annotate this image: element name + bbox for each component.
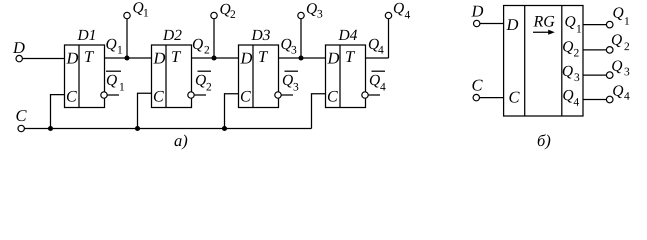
pin label T of D1 bbox=[85, 51, 94, 62]
pin label Q3 of RG bbox=[563, 66, 580, 81]
terminal label Q1 bbox=[133, 2, 148, 16]
pin label Q2 of RG bbox=[563, 41, 579, 56]
output terminal Q3 of RG bbox=[606, 72, 613, 79]
label D (RG data input) bbox=[471, 6, 483, 17]
junction Q1 to terminal riser bbox=[124, 55, 129, 60]
wire Q4 output bbox=[366, 57, 389, 59]
output terminal Q2 bbox=[211, 12, 217, 18]
pin label D of D1 bbox=[66, 53, 78, 64]
wire /Q3 stub bbox=[281, 94, 293, 96]
wire C clock bus bbox=[24, 128, 311, 130]
terminal label Q3 bbox=[307, 3, 322, 17]
wire Q3 output bbox=[279, 57, 326, 59]
pin label Q4 of RG bbox=[563, 90, 579, 106]
label C (clock input) bbox=[16, 110, 26, 121]
wire /Q2 stub bbox=[194, 94, 206, 96]
label C (RG clock input) bbox=[472, 80, 482, 91]
D flip-flop D2 body bbox=[152, 45, 192, 108]
terminal label Q1 of RG bbox=[613, 7, 629, 24]
pin label T of D4 bbox=[346, 51, 355, 62]
output label /Q3 (Q3 inverted) bbox=[283, 71, 298, 90]
pin label D of D3 bbox=[240, 53, 252, 64]
wire D input of RG bbox=[480, 23, 504, 25]
inversion bubble on D3 inverted output bbox=[275, 92, 281, 98]
inversion bubble on D2 inverted output bbox=[188, 92, 194, 98]
D flip-flop D4 body bbox=[326, 45, 366, 108]
wire /Q4 stub bbox=[368, 94, 380, 96]
wire Q4 terminal riser bbox=[388, 19, 390, 58]
wire D input to D1 bbox=[22, 58, 64, 60]
output terminal Q1 bbox=[124, 12, 130, 18]
pin label T of D2 bbox=[172, 51, 181, 62]
wire Q4 output of RG bbox=[583, 99, 606, 101]
wire Q3 terminal riser bbox=[300, 19, 302, 58]
junction on C bus at D1 riser bbox=[48, 126, 53, 131]
output label Q1 bbox=[106, 39, 122, 54]
D flip-flop D3 body bbox=[239, 45, 279, 108]
wire clock riser to D1 C pin bbox=[51, 95, 65, 129]
terminal label Q2 bbox=[220, 4, 235, 18]
wire Q2 output bbox=[192, 57, 239, 59]
output terminal Q3 bbox=[298, 12, 304, 18]
label D (serial input) bbox=[13, 42, 25, 53]
wire Q1 output of RG bbox=[583, 24, 606, 26]
inversion bubble on D1 inverted output bbox=[101, 92, 107, 98]
pin label D of D4 bbox=[327, 53, 339, 64]
output label /Q1 (Q1 inverted) bbox=[106, 71, 124, 90]
wire /Q1 stub bbox=[107, 94, 119, 96]
pin label C of RG bbox=[509, 92, 519, 103]
label D1 bbox=[77, 30, 94, 40]
junction on C bus at D3 riser bbox=[222, 126, 227, 131]
pin label C of D2 bbox=[154, 91, 164, 102]
label D4 bbox=[338, 30, 357, 40]
output label /Q2 (Q2 inverted) bbox=[196, 71, 211, 90]
register RG body bbox=[504, 6, 583, 117]
caption b) for right diagram bbox=[538, 134, 551, 149]
label RG bbox=[533, 16, 554, 27]
terminal label Q4 of RG bbox=[613, 85, 629, 99]
junction on C bus at D2 riser bbox=[135, 126, 140, 131]
label D2 bbox=[163, 30, 182, 40]
pin label C of D4 bbox=[328, 91, 338, 102]
input terminal C bbox=[18, 125, 24, 131]
terminal label Q2 of RG bbox=[612, 34, 629, 50]
D flip-flop D1 body bbox=[65, 45, 105, 108]
caption a) for left diagram bbox=[174, 135, 187, 150]
label D3 bbox=[251, 30, 270, 40]
input terminal D of RG bbox=[474, 20, 480, 26]
junction Q2 to terminal riser bbox=[211, 55, 216, 60]
pin label Q1 of RG bbox=[565, 16, 581, 32]
output label Q4 bbox=[369, 39, 384, 54]
wire Q2 output of RG bbox=[583, 49, 606, 51]
input terminal C of RG bbox=[473, 94, 479, 100]
pin label D of RG bbox=[506, 19, 518, 30]
wire Q1 output bbox=[105, 57, 152, 59]
output label Q2 bbox=[193, 39, 209, 54]
pin label T of D3 bbox=[259, 51, 268, 62]
pin label D of D2 bbox=[153, 53, 165, 64]
pin label C of D1 bbox=[67, 91, 77, 102]
junction Q3 to terminal riser bbox=[298, 55, 303, 60]
output terminal Q1 of RG bbox=[606, 21, 613, 28]
wire C input of RG bbox=[480, 97, 504, 99]
wire clock riser to D2 C pin bbox=[138, 93, 152, 128]
pin label C of D3 bbox=[241, 91, 251, 102]
output terminal Q4 of RG bbox=[606, 96, 613, 103]
wire clock riser to D4 C pin bbox=[312, 94, 326, 129]
wire Q2 terminal riser bbox=[213, 19, 215, 58]
output label /Q4 (Q4 inverted) bbox=[370, 71, 386, 90]
output label Q3 bbox=[281, 39, 296, 54]
output terminal Q4 bbox=[385, 12, 391, 18]
clock edge arrow of RG bbox=[533, 30, 555, 35]
terminal label Q4 bbox=[394, 3, 410, 19]
inversion bubble on D4 inverted output bbox=[362, 92, 368, 98]
wire Q1 terminal riser bbox=[126, 19, 128, 58]
input terminal D bbox=[16, 55, 22, 61]
wire clock riser to D3 C pin bbox=[225, 94, 239, 129]
output terminal Q2 of RG bbox=[606, 47, 613, 54]
terminal label Q3 of RG bbox=[612, 60, 629, 75]
wire Q3 output of RG bbox=[583, 74, 606, 76]
